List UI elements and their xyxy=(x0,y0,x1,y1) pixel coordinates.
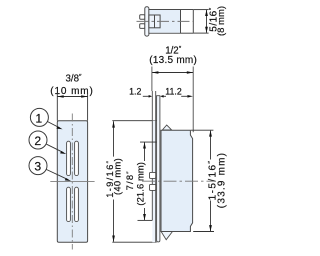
svg-text:(33.9 mm): (33.9 mm) xyxy=(216,152,227,208)
svg-text:(8 mm): (8 mm) xyxy=(216,6,227,36)
svg-text:1: 1 xyxy=(35,111,42,125)
svg-text:3: 3 xyxy=(34,160,41,174)
svg-text:(13.5 mm): (13.5 mm) xyxy=(149,55,197,66)
svg-text:1.2: 1.2 xyxy=(129,87,141,97)
svg-text:11.2: 11.2 xyxy=(165,87,182,97)
svg-text:(40 mm): (40 mm) xyxy=(111,158,122,195)
svg-text:2: 2 xyxy=(34,134,41,148)
svg-text:(21.6 mm): (21.6 mm) xyxy=(134,162,145,206)
